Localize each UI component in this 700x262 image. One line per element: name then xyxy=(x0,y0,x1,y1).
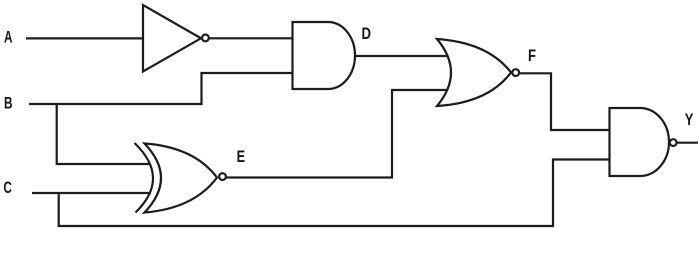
svg-text:Y: Y xyxy=(685,111,694,129)
svg-text:A: A xyxy=(4,28,13,46)
svg-text:C: C xyxy=(3,179,12,197)
svg-text:D: D xyxy=(362,25,372,43)
svg-text:E: E xyxy=(237,148,246,166)
svg-text:F: F xyxy=(528,47,536,65)
svg-text:B: B xyxy=(4,94,13,112)
